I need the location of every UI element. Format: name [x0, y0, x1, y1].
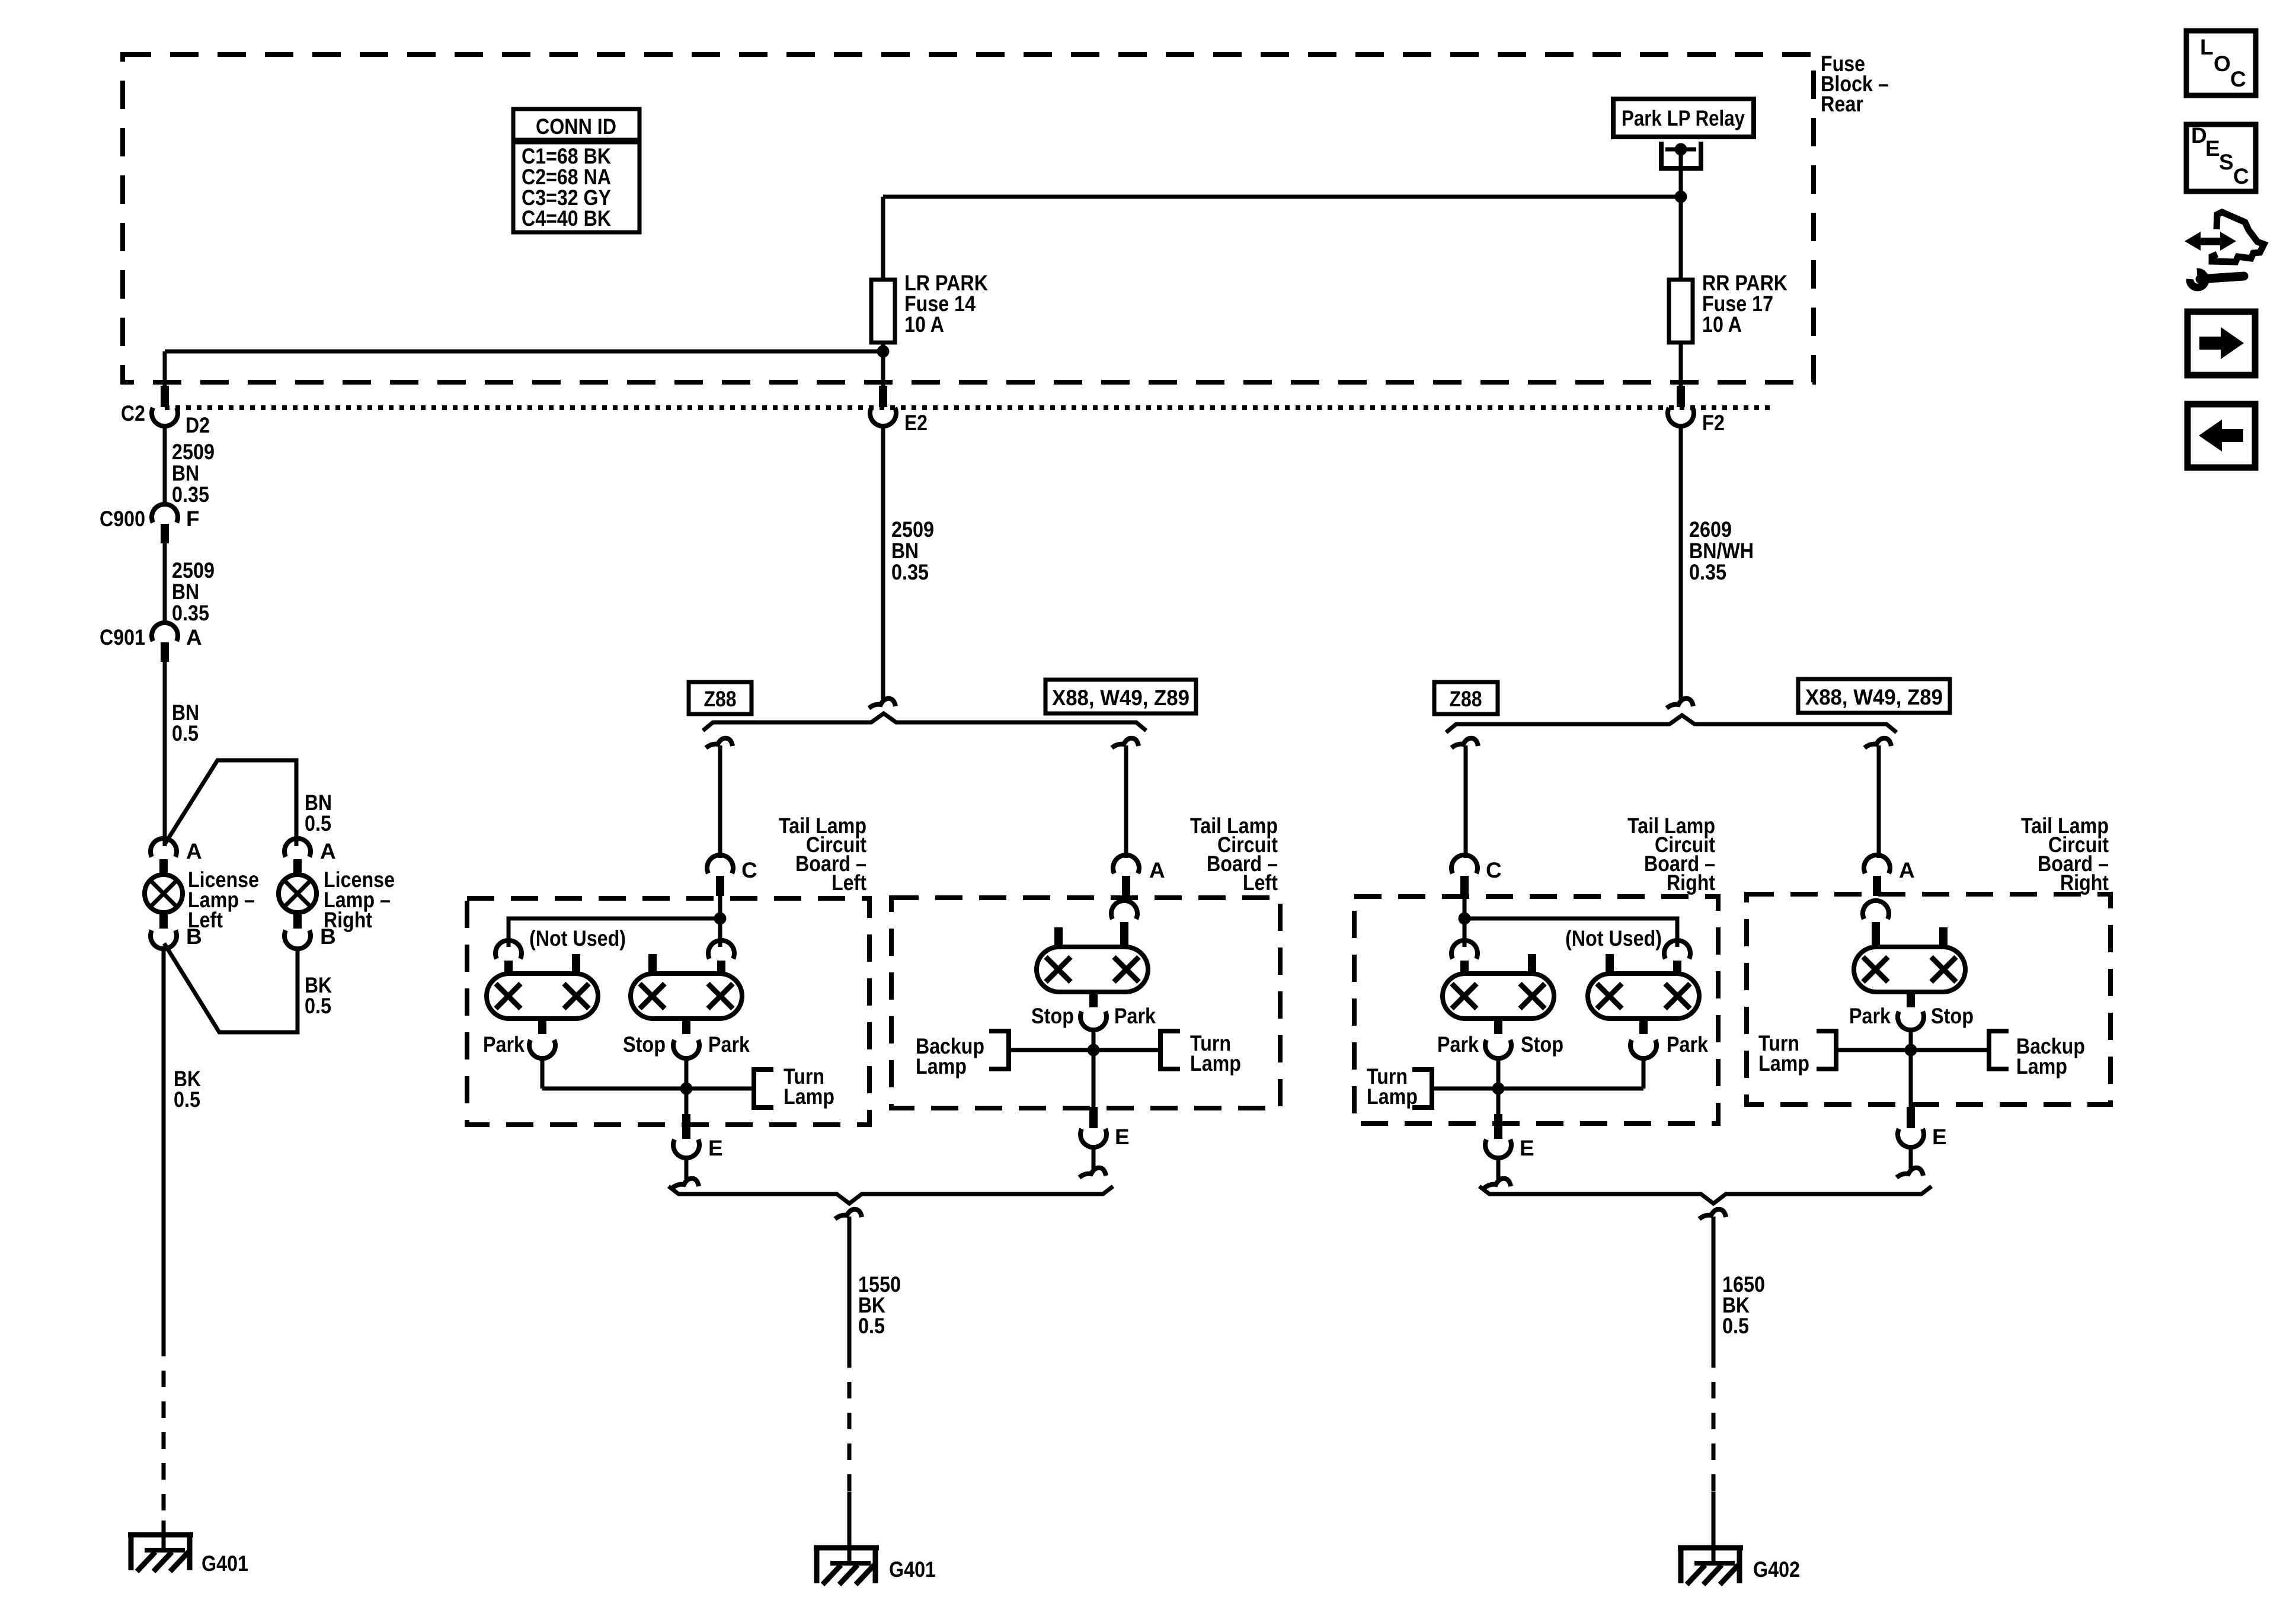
icon wrench	[2190, 272, 2205, 287]
svg-text:BN/WH: BN/WH	[1689, 539, 1754, 563]
wire branch to right license lamp	[164, 760, 296, 846]
board 3: turn lamp cross wire	[1432, 1087, 1643, 1091]
svg-text:C: C	[1486, 858, 1502, 882]
svg-text:Left: Left	[188, 908, 223, 932]
connector E2	[879, 386, 887, 407]
connector C901 / A	[152, 623, 178, 641]
board 4: backup lamp bracket	[1989, 1031, 2009, 1069]
fuse block - rear dashed outline	[123, 55, 1814, 382]
svg-text:0.35: 0.35	[1689, 560, 1726, 584]
svg-text:Park: Park	[483, 1032, 525, 1057]
svg-text:10 A: 10 A	[904, 312, 944, 337]
svg-text:G402: G402	[1753, 1557, 1800, 1582]
svg-text:0.5: 0.5	[174, 1087, 200, 1112]
board 1: turn lamp bracket	[754, 1070, 773, 1108]
board 1: stop/park pin below lamp	[682, 1017, 690, 1034]
board 3: stop/park lamp	[1443, 974, 1554, 1019]
svg-text:0.5: 0.5	[1722, 1314, 1749, 1338]
svg-text:(Not Used): (Not Used)	[1565, 926, 1662, 950]
board 3: cup to stop/park lamp	[1451, 940, 1478, 959]
svg-text:Right: Right	[324, 908, 372, 932]
svg-text:E: E	[1115, 1125, 1130, 1149]
svg-text:A: A	[186, 839, 202, 863]
svg-text:E2: E2	[904, 411, 928, 435]
svg-text:C4=40 BK: C4=40 BK	[522, 206, 611, 231]
svg-text:Z88: Z88	[1450, 687, 1482, 711]
wire C901 to license lamps	[163, 662, 167, 846]
svg-text:0.5: 0.5	[305, 811, 331, 836]
CONN ID table	[513, 109, 639, 232]
svg-text:Stop: Stop	[1031, 1004, 1074, 1028]
board 3: turn lamp bracket	[1412, 1070, 1432, 1108]
svg-text:0.35: 0.35	[172, 482, 209, 507]
svg-text:Right: Right	[1667, 870, 1715, 895]
board 4: junction	[1905, 1044, 1917, 1057]
relay Park LP Relay box	[1613, 99, 1754, 137]
svg-text:(Not Used): (Not Used)	[529, 926, 626, 950]
board 3: pin below stop/park lamp	[1494, 1017, 1502, 1034]
wire X88-left drop	[1112, 738, 1139, 748]
board 1: park wire down	[541, 1057, 545, 1089]
board 3: park pin below not-used lamp	[1639, 1017, 1648, 1034]
svg-text:X88, W49, Z89: X88, W49, Z89	[1052, 686, 1189, 710]
board 2: turn lamp bracket	[1160, 1031, 1180, 1069]
svg-text:A: A	[1899, 858, 1915, 882]
svg-text:C2: C2	[121, 401, 145, 425]
svg-text:BN: BN	[172, 580, 199, 604]
board 2: stop/park lamp	[1037, 947, 1148, 992]
board 4: A connector	[1864, 855, 1890, 873]
board 2: backup lamp bracket	[989, 1031, 1009, 1069]
svg-text:A: A	[186, 625, 202, 649]
svg-text:D2: D2	[186, 413, 210, 437]
svg-text:2509: 2509	[891, 517, 934, 542]
brace top right	[1446, 715, 1897, 732]
svg-text:Park: Park	[708, 1032, 750, 1057]
svg-text:0.35: 0.35	[172, 601, 209, 625]
board 1: junction	[714, 913, 727, 925]
svg-text:Stop: Stop	[623, 1032, 666, 1057]
svg-text:Stop: Stop	[1931, 1004, 1974, 1028]
svg-text:C901: C901	[100, 625, 145, 649]
wire RR fuse to F2	[1679, 343, 1683, 386]
node X88, W49, Z89 (left)	[1045, 680, 1196, 713]
svg-text:Park: Park	[1667, 1032, 1708, 1057]
tail lamp circuit board left - dashed box 2	[891, 898, 1280, 1108]
svg-text:S: S	[2219, 150, 2234, 174]
svg-text:A: A	[1149, 858, 1165, 882]
wire ground right	[1699, 1209, 1726, 1219]
board 3: cup to not-used lamp	[1664, 940, 1690, 959]
svg-text:Lamp: Lamp	[916, 1054, 967, 1078]
wire E2 drop	[881, 425, 885, 699]
board 4: wire to cross	[1909, 1029, 1913, 1107]
board 3: junction	[1492, 1083, 1505, 1095]
junction fuse/C2 feed	[877, 345, 890, 358]
license lamp - left	[151, 838, 177, 857]
brace bottom right	[1479, 1186, 1932, 1204]
svg-text:BN: BN	[172, 461, 199, 485]
board 1: junction	[680, 1083, 693, 1095]
board 3: branch wire to not-used lamp	[1464, 918, 1677, 947]
svg-text:X88, W49, Z89: X88, W49, Z89	[1805, 685, 1943, 709]
icon vehicle outline with wrench	[2212, 212, 2264, 262]
connector F2	[1677, 386, 1685, 407]
svg-text:Park: Park	[1849, 1004, 1891, 1028]
svg-text:Lamp: Lamp	[784, 1084, 834, 1109]
svg-text:F: F	[186, 507, 200, 531]
brace top left	[703, 713, 1146, 731]
board 3: C connector	[1451, 855, 1478, 873]
svg-text:Rear: Rear	[1821, 92, 1863, 116]
board 4: inner cup	[1863, 901, 1889, 919]
wire X88-right drop	[1865, 738, 1891, 748]
svg-text:Right: Right	[2060, 870, 2109, 895]
svg-text:Park LP Relay: Park LP Relay	[1622, 106, 1745, 130]
icon double arrow	[2185, 232, 2236, 251]
svg-text:C: C	[741, 858, 757, 882]
board 3: park wire down	[1642, 1057, 1646, 1089]
node X88, W49, Z89 (right)	[1798, 679, 1950, 713]
svg-text:G401: G401	[889, 1557, 936, 1582]
svg-text:C: C	[2233, 164, 2249, 188]
connector C2 / D2	[161, 386, 169, 407]
board 2: cross wire backup/turn	[1009, 1048, 1160, 1052]
svg-text:0.35: 0.35	[891, 560, 929, 584]
icon DESC box	[2186, 124, 2256, 191]
svg-text:F2: F2	[1702, 411, 1725, 435]
dotted in-line harness connector line	[165, 405, 1772, 410]
license lamp - right	[284, 838, 311, 857]
wire C2 to C900	[163, 425, 167, 506]
board 3: wire to E	[1496, 1089, 1501, 1116]
svg-text:Left: Left	[832, 870, 866, 895]
fuse LR PARK Fuse 14 10A	[871, 280, 895, 343]
wire left lamp to ground	[162, 948, 166, 1340]
svg-text:CONN ID: CONN ID	[536, 114, 616, 139]
board 1: wire to E	[685, 1089, 689, 1116]
wire Z88-left drop	[706, 738, 733, 748]
ground G402	[1678, 1545, 1743, 1551]
svg-text:Left: Left	[1243, 870, 1278, 895]
tail lamp circuit board right - dashed box 4	[1747, 894, 2110, 1105]
tail lamp circuit board right - dashed box 3	[1354, 897, 1718, 1124]
svg-text:E: E	[2205, 136, 2220, 161]
board 1: C connector	[707, 855, 733, 873]
board 2: E connector	[1089, 1107, 1098, 1128]
junction relay bus	[1675, 191, 1687, 203]
connector C900 / F	[152, 504, 178, 523]
node Z88 (right)	[1434, 682, 1498, 714]
board 1: branch wire to not-used lamp	[509, 918, 720, 947]
board 1: stop/park lamp	[631, 974, 742, 1019]
board 2: junction	[1088, 1044, 1100, 1057]
wire B-side branch	[164, 943, 298, 1032]
board 2: pin below lamp	[1089, 991, 1098, 1007]
svg-text:C: C	[2230, 67, 2246, 91]
svg-text:10 A: 10 A	[1702, 312, 1742, 337]
svg-text:G401: G401	[202, 1551, 248, 1576]
wire C2 feed	[165, 350, 883, 354]
ground G401 (center)	[814, 1545, 879, 1551]
svg-text:O: O	[2214, 52, 2231, 76]
wire relay bus	[883, 195, 1681, 199]
board 4: turn lamp bracket	[1817, 1031, 1836, 1069]
svg-text:Lamp: Lamp	[1367, 1084, 1418, 1109]
board 4: pin below lamp	[1907, 991, 1915, 1007]
board 2: A connector	[1113, 855, 1139, 873]
fuse RR PARK Fuse 17 10A	[1669, 280, 1693, 343]
svg-text:Stop: Stop	[1521, 1032, 1563, 1057]
svg-text:C900: C900	[100, 507, 145, 531]
board 4: cross wire turn/backup	[1836, 1048, 1989, 1052]
relay contact symbol	[1661, 142, 1701, 168]
wire LR fuse to E2	[881, 343, 885, 386]
board 1: cup to not-used lamp	[495, 940, 522, 959]
board 1: not-used lamp	[487, 974, 598, 1019]
svg-text:A: A	[320, 839, 336, 863]
svg-text:BN: BN	[891, 539, 919, 563]
svg-text:0.5: 0.5	[305, 994, 331, 1018]
svg-text:2609: 2609	[1689, 517, 1732, 542]
board 4: stop/park lamp	[1854, 947, 1965, 992]
svg-text:0.5: 0.5	[858, 1314, 885, 1338]
svg-text:D: D	[2191, 123, 2207, 148]
svg-text:Park: Park	[1114, 1004, 1156, 1028]
svg-text:E: E	[708, 1136, 723, 1160]
wire F2 drop	[1679, 425, 1683, 699]
board 1: turn lamp cross wire	[542, 1087, 754, 1091]
svg-text:E: E	[1932, 1125, 1947, 1149]
board 1: park pin below not-used lamp	[538, 1017, 546, 1034]
ground G401 (left)	[128, 1532, 193, 1538]
board 3: not-used lamp	[1588, 974, 1699, 1019]
svg-text:Lamp: Lamp	[1758, 1051, 1809, 1076]
svg-text:Z88: Z88	[704, 687, 737, 711]
icon LOC box	[2186, 31, 2256, 95]
svg-text:Park: Park	[1437, 1032, 1479, 1057]
board 3: junction	[1459, 913, 1471, 925]
wire Z88-right drop	[1451, 738, 1478, 748]
svg-text:Lamp: Lamp	[2016, 1054, 2067, 1078]
brace bottom left	[669, 1186, 1113, 1204]
board 2: inner cup	[1111, 901, 1137, 919]
tail lamp circuit board left - dashed box 1	[467, 898, 869, 1125]
svg-text:E: E	[1520, 1136, 1534, 1160]
svg-text:2509: 2509	[172, 440, 215, 464]
board 2: wire to cross	[1092, 1029, 1096, 1107]
svg-text:Lamp: Lamp	[1190, 1051, 1241, 1076]
wire C900 to C901	[163, 543, 167, 625]
board 4: E connector	[1907, 1107, 1915, 1128]
svg-text:0.5: 0.5	[172, 721, 199, 745]
svg-text:L: L	[2200, 35, 2214, 59]
board 1: cup to stop/park lamp	[708, 940, 734, 959]
icon arrow right box	[2188, 312, 2255, 375]
wire ground center	[835, 1209, 862, 1219]
icon arrow left box	[2188, 404, 2255, 468]
svg-text:2509: 2509	[172, 558, 215, 582]
node Z88 (left)	[689, 682, 752, 714]
